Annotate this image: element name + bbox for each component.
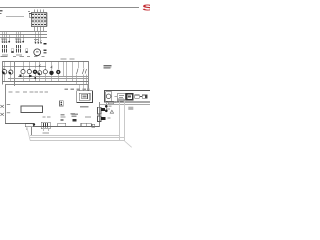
- svg-text:S: S: [142, 3, 150, 13]
